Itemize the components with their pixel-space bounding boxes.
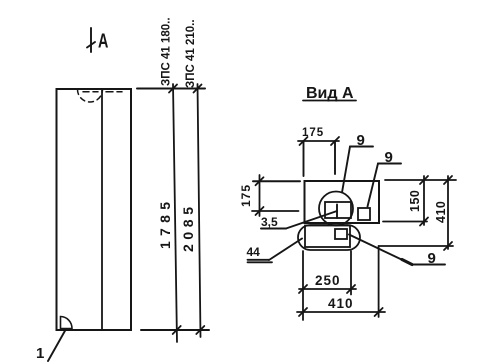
tick top 1785: [169, 85, 177, 93]
tick 410 bottom left: [299, 308, 307, 316]
svg-text:175: 175: [239, 184, 253, 207]
leader 44 shelf (double): [248, 260, 273, 263]
ext line 175 left: [303, 141, 305, 176]
svg-text:9: 9: [385, 149, 393, 166]
leader to pos 1: [48, 329, 66, 361]
svg-text:9: 9: [357, 132, 365, 149]
leader 9 upper: [342, 147, 373, 193]
small square in stadium: [335, 229, 347, 239]
dim 175 top line: [298, 140, 339, 142]
tick 250 right: [347, 285, 355, 293]
plate outline of Вид А: [305, 181, 380, 223]
bottom dim ext left: [302, 251, 304, 320]
ext 150 bottom: [383, 221, 427, 223]
tick 175 left bottom: [256, 207, 264, 215]
svg-text:250: 250: [315, 273, 341, 288]
tick 150 bottom: [420, 218, 428, 226]
tick 175 right: [331, 137, 339, 145]
tick bottom 1785: [173, 326, 181, 334]
circle window: [319, 192, 353, 226]
leader 3,5: [261, 211, 337, 229]
svg-text:1: 1: [36, 345, 44, 362]
title underline: [303, 100, 356, 102]
ext line bottom: [252, 210, 299, 212]
svg-text:9: 9: [428, 250, 436, 267]
dim 410 bottom line: [297, 311, 385, 313]
center mark in circle rect: [336, 205, 338, 219]
svg-text:А: А: [98, 29, 109, 52]
dim 250 line: [299, 288, 356, 290]
tick 410 bottom right: [375, 308, 383, 316]
top extension line of height dims: [137, 88, 205, 90]
svg-text:410: 410: [328, 296, 354, 311]
dashed semicircle top: [78, 90, 103, 103]
stadium slot: [298, 225, 360, 250]
svg-text:Вид А: Вид А: [306, 85, 354, 102]
svg-text:410: 410: [434, 201, 448, 223]
leader 9 lower: [349, 235, 445, 265]
ext line 175 right: [334, 141, 336, 174]
svg-text:ЗПС 41 180..: ЗПС 41 180..: [161, 17, 173, 86]
svg-text:44: 44: [247, 245, 261, 259]
dashed hidden line right: [106, 91, 122, 93]
rect in circle: [325, 202, 351, 218]
svg-text:3,5: 3,5: [261, 215, 278, 229]
svg-text:ЗПС 41 210..: ЗПС 41 210..: [185, 19, 197, 88]
svg-text:150: 150: [408, 190, 422, 212]
ext 410 right bottom: [379, 245, 453, 247]
tick bottom 2085: [196, 326, 204, 334]
view arrow A: [87, 28, 95, 52]
corner quarter-round detail pos.1: [61, 317, 73, 329]
tick 410 right top: [444, 176, 452, 184]
tick 410 right bottom: [444, 242, 452, 250]
tick 150 top: [420, 176, 428, 184]
dashed hidden line left: [83, 91, 98, 93]
tick top 2085: [194, 85, 202, 93]
leader 44: [269, 239, 302, 261]
dim 410 right line: [447, 176, 449, 249]
leader 9 second: [368, 164, 402, 207]
panel inner edge: [101, 89, 103, 330]
panel outline: [57, 89, 132, 330]
dim 175 left line: [259, 175, 261, 216]
bottom dim ext right: [378, 246, 380, 317]
svg-text:175: 175: [302, 127, 324, 139]
dim 150 line: [423, 176, 425, 225]
tick 250 left: [299, 285, 307, 293]
bottom extension line of height dims: [141, 329, 209, 331]
rect in stadium: [305, 226, 350, 248]
small square right: [358, 208, 370, 220]
dim line 1785: [173, 84, 177, 342]
tick 175 left top: [256, 177, 264, 185]
ext line top (to plate): [253, 180, 300, 182]
bottom dim ext mid: [350, 251, 352, 295]
dim line 2085: [198, 84, 201, 337]
right dims top extension: [385, 179, 456, 181]
tick 175 left: [300, 137, 308, 145]
